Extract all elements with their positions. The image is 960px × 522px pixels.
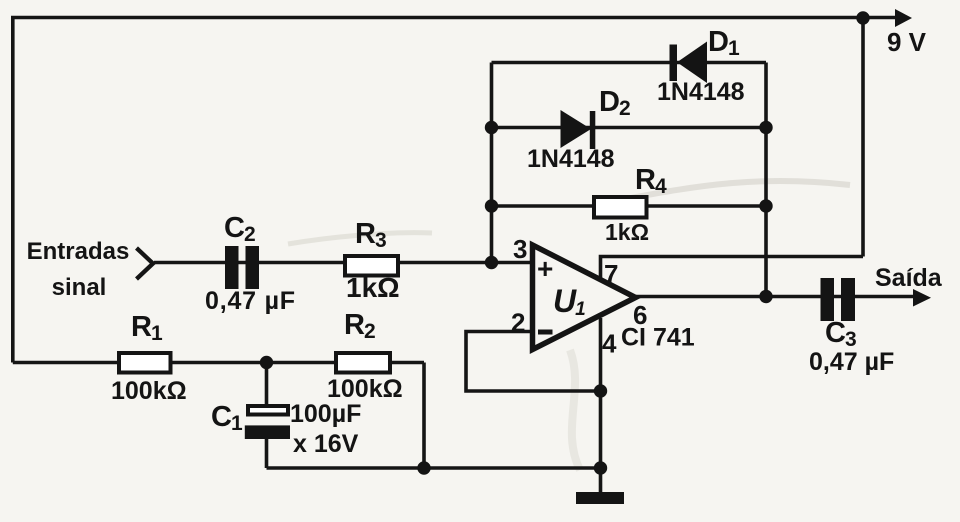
svg-text:2: 2 bbox=[511, 308, 525, 338]
svg-text:1N4148: 1N4148 bbox=[527, 145, 615, 173]
wire R1 R2 row bbox=[13, 361, 424, 365]
capacitor C2 bbox=[225, 246, 259, 289]
svg-text:1kΩ: 1kΩ bbox=[346, 272, 400, 303]
faint scan smudge below op-amp bbox=[570, 350, 580, 470]
wire pin 2 loop bbox=[466, 332, 601, 392]
label minus input bbox=[538, 330, 553, 335]
diode D1 bbox=[670, 42, 708, 84]
svg-text:100µF: 100µF bbox=[290, 400, 361, 428]
resistor R2 bbox=[336, 353, 390, 373]
wire output row bbox=[636, 295, 915, 299]
wire C1 top lead bbox=[265, 363, 269, 407]
svg-text:3: 3 bbox=[513, 234, 527, 264]
resistor R1 bbox=[119, 353, 171, 373]
svg-text:sinal: sinal bbox=[52, 274, 107, 301]
wire D1 row bbox=[492, 61, 767, 65]
svg-text:Entradas: Entradas bbox=[27, 238, 130, 265]
Saida arrowhead bbox=[913, 289, 931, 307]
svg-text:0,47 µF: 0,47 µF bbox=[809, 348, 894, 376]
wire 9V drop from rail bbox=[861, 18, 865, 257]
wire V+ feed to pin 7 bbox=[601, 257, 864, 282]
svg-text:100kΩ: 100kΩ bbox=[327, 375, 403, 403]
resistor R4 bbox=[594, 197, 647, 218]
label Entradas sinal bbox=[27, 238, 130, 301]
svg-text:CI 741: CI 741 bbox=[621, 324, 695, 352]
9V arrowhead bbox=[895, 9, 912, 27]
faint scan smudge above R3 bbox=[288, 233, 432, 244]
svg-text:4: 4 bbox=[602, 329, 617, 359]
wire R2 right drop bbox=[422, 363, 426, 469]
svg-text:1N4148: 1N4148 bbox=[657, 78, 745, 106]
wire feedback box left edge bbox=[490, 63, 494, 263]
wire R4 row bbox=[492, 204, 767, 208]
svg-text:7: 7 bbox=[604, 259, 618, 289]
resistor R3 bbox=[345, 256, 398, 276]
capacitor C3 bbox=[821, 278, 856, 321]
wire bottom row bbox=[267, 466, 601, 470]
svg-text:9 V: 9 V bbox=[887, 27, 927, 57]
wire D2 row bbox=[492, 126, 767, 130]
ground bbox=[576, 492, 624, 504]
wire top 9V rail with left border bbox=[13, 18, 897, 363]
wire feedback box right edge bbox=[764, 63, 768, 297]
faint scan smudge right of R4 bbox=[620, 181, 850, 200]
svg-text:+: + bbox=[537, 253, 553, 284]
wire C1 bottom lead bbox=[265, 438, 269, 468]
node junction dots bbox=[260, 11, 870, 474]
svg-text:Saída: Saída bbox=[875, 264, 943, 292]
diode D2 bbox=[561, 110, 596, 149]
svg-text:1kΩ: 1kΩ bbox=[605, 219, 649, 245]
svg-text:0,47 µF: 0,47 µF bbox=[205, 287, 296, 315]
wire input row to pin 3 bbox=[154, 261, 533, 265]
svg-text:x 16V: x 16V bbox=[293, 430, 359, 458]
op-amp U1 bbox=[533, 245, 636, 350]
svg-text:100kΩ: 100kΩ bbox=[111, 377, 187, 405]
input chevron bbox=[137, 248, 154, 279]
capacitor C1 electrolytic bbox=[245, 406, 290, 439]
wire pin 4 to ground bbox=[599, 318, 603, 493]
